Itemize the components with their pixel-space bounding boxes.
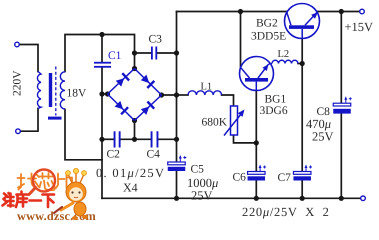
svg-text:25V: 25V bbox=[312, 130, 334, 144]
svg-text:+15V: +15V bbox=[345, 20, 374, 34]
svg-text:C2: C2 bbox=[107, 149, 121, 161]
svg-text:L1: L1 bbox=[201, 82, 213, 93]
svg-text:680K: 680K bbox=[202, 117, 228, 129]
svg-text:BG2: BG2 bbox=[256, 18, 278, 30]
svg-text:3DD5E: 3DD5E bbox=[251, 31, 286, 43]
svg-text:C7: C7 bbox=[278, 172, 292, 184]
svg-text:3DG6: 3DG6 bbox=[260, 105, 288, 117]
svg-text:BG1: BG1 bbox=[265, 94, 287, 106]
svg-text:18V: 18V bbox=[67, 88, 88, 100]
svg-text:X4: X4 bbox=[123, 181, 138, 195]
svg-text:25V: 25V bbox=[191, 189, 213, 203]
svg-text:C4: C4 bbox=[147, 149, 161, 161]
svg-text:0. 01μ/25V: 0. 01μ/25V bbox=[96, 166, 165, 180]
svg-text:C3: C3 bbox=[149, 34, 163, 46]
svg-text:C5: C5 bbox=[191, 164, 205, 176]
svg-text:L2: L2 bbox=[278, 49, 290, 60]
svg-text:C6: C6 bbox=[233, 172, 247, 184]
svg-text:C1: C1 bbox=[108, 50, 122, 62]
svg-text:220V: 220V bbox=[12, 70, 24, 96]
svg-text:220μ/25V X 2: 220μ/25V X 2 bbox=[242, 205, 330, 219]
